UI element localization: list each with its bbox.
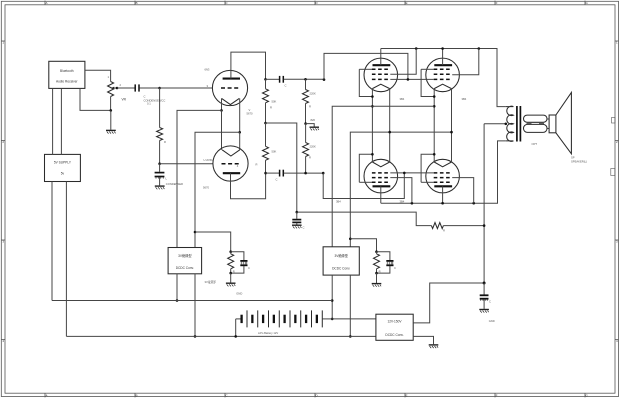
T4 g3 stub	[421, 181, 434, 183]
bluetooth receiver U-BT	[49, 61, 85, 88]
wire left filter jog	[195, 232, 231, 252]
T1 g3 stub	[359, 68, 372, 70]
svg-text:A: A	[45, 394, 47, 398]
svg-text:R: R	[309, 105, 311, 109]
wire left box pin2 to rail2	[194, 274, 196, 337]
node right filter tap	[349, 238, 352, 241]
svg-text:220K: 220K	[310, 92, 316, 96]
ground HV	[429, 345, 439, 348]
wire pot bottom down to ground	[110, 110, 112, 129]
svg-text:SPEAKER(L): SPEAKER(L)	[571, 160, 587, 164]
resistor R left bleeder	[228, 254, 234, 269]
svg-text:C: C	[489, 300, 491, 304]
wire B+ vertical	[483, 124, 485, 283]
svg-text:12V-150V: 12V-150V	[387, 320, 402, 324]
POWER BOTTOM	[52, 231, 495, 348]
node B+ decouple	[296, 211, 299, 214]
rail1 +12V	[52, 300, 332, 302]
ground 820	[310, 127, 320, 130]
wire grid node to tube grid	[160, 87, 213, 89]
node grid-leak upper	[304, 78, 307, 81]
svg-text:3V電源部: 3V電源部	[205, 280, 217, 284]
T2 plate	[434, 64, 452, 66]
T2 filament bracket	[421, 69, 434, 96]
TRANSFORMER SPEAKER	[483, 92, 587, 283]
battery BT1 LiPo	[236, 310, 333, 335]
wire to B+ col	[266, 123, 297, 212]
wire T2 g2 tie	[452, 49, 479, 75]
T1 filament right pin to bus B	[389, 89, 391, 133]
wire right box pin1 to rail1/battery	[331, 275, 333, 319]
capacitor C B+ bypass	[296, 212, 298, 219]
svg-text:R: R	[443, 229, 445, 233]
svg-text:R: R	[270, 106, 272, 110]
svg-text:C: C	[303, 226, 305, 230]
node wiper junction	[116, 87, 119, 90]
potentiometer VR	[108, 82, 114, 97]
T3 grids	[372, 173, 390, 182]
ground right bleeder	[372, 284, 382, 287]
DCDC converter left box	[168, 248, 202, 274]
T3 g3 stub	[359, 181, 372, 183]
resistor R right bleeder	[374, 254, 380, 269]
svg-text:5V SUPPLY: 5V SUPPLY	[54, 161, 72, 165]
T3 filament left pin	[371, 154, 373, 162]
T2 grids	[434, 69, 452, 79]
triode V2 lower 5670 envelope	[213, 146, 248, 181]
wire T1 g2 tie	[390, 49, 416, 75]
V1 grid dashes	[221, 87, 240, 89]
wire heater to DCDC col	[195, 132, 240, 247]
wire g1 bus top	[390, 78, 433, 80]
capacitor C left bleeder	[231, 252, 244, 261]
T1 plate	[373, 64, 391, 66]
OPT secondary winding 1	[524, 115, 548, 122]
node signal bottom	[322, 172, 325, 175]
node right RC top	[375, 250, 378, 253]
OPT core	[516, 106, 518, 142]
wire right box pin2 to rail2	[349, 275, 351, 336]
svg-text:C: C	[276, 177, 278, 181]
T3 filament	[372, 162, 389, 167]
svg-text:R: R	[256, 163, 258, 167]
svg-text:SP: SP	[571, 156, 575, 160]
V2 plate lead down-right-up	[231, 173, 266, 199]
svg-text:5670: 5670	[247, 112, 253, 116]
wire g1 bus bottom	[390, 172, 433, 174]
svg-text:CONDENSER: CONDENSER	[166, 182, 183, 186]
wire filament bus A	[332, 106, 434, 247]
wire secondary to speaker	[547, 118, 549, 120]
T4 filament	[434, 162, 451, 167]
T2 filament left pin	[433, 89, 435, 155]
ground grid bypass	[155, 186, 165, 189]
ground input	[106, 130, 116, 133]
wire cathode down to V2	[221, 110, 223, 149]
svg-text:B: B	[135, 394, 137, 398]
svg-text:220K: 220K	[310, 145, 316, 149]
wire filament bus B	[350, 132, 451, 247]
wire signal top jog over tubes	[324, 53, 408, 79]
T2 plate lead	[442, 49, 444, 66]
wire BT pin2 to 5V box	[60, 88, 62, 154]
wire to lower tube grid	[160, 163, 213, 165]
node bias 820	[304, 122, 307, 125]
T3 filament right pin	[389, 132, 391, 162]
svg-text:50K: 50K	[272, 100, 277, 104]
svg-text:U 2C51: U 2C51	[204, 158, 214, 162]
DCDC converter right box	[323, 247, 359, 275]
speaker SP driver box	[549, 115, 556, 133]
V2 cathode curve	[222, 150, 240, 156]
node B+ driver mid	[264, 122, 267, 125]
svg-text:DCDC Conv.: DCDC Conv.	[332, 267, 350, 271]
node grid upper	[158, 87, 161, 90]
resistor R dropper	[431, 223, 443, 229]
wire left box pin1 to rail1	[176, 274, 178, 301]
svg-text:820: 820	[311, 118, 316, 122]
svg-text:DCDC Conv.: DCDC Conv.	[385, 333, 403, 337]
speaker SP horn	[556, 92, 572, 153]
wire HV out	[413, 283, 484, 323]
svg-text:F: F	[496, 394, 498, 398]
T2 filament right pin	[451, 89, 453, 133]
wire 5V box pin2 down to rail2	[65, 182, 67, 337]
wire signal bottom jog under tubes	[323, 173, 404, 199]
T3 plate	[373, 185, 391, 187]
T1 grids	[372, 69, 390, 79]
V1 plate lead up	[231, 52, 266, 79]
ground B+ filter	[479, 310, 489, 313]
T4 filament bracket	[421, 154, 434, 182]
resistor 220K upper	[305, 79, 307, 89]
OPT secondary winding 2	[524, 124, 548, 132]
T3 plate lead	[380, 186, 382, 203]
OPT center tap	[484, 123, 507, 125]
pentode T2 3B4 envelope	[426, 58, 460, 92]
capacitor C grid bypass	[159, 164, 161, 172]
resistor 50K upper	[265, 79, 267, 89]
OPT primary winding	[506, 106, 514, 141]
T4 plate lead	[442, 186, 444, 203]
capacitor C coupling lower	[266, 172, 280, 174]
capacitor C coupling upper	[266, 78, 280, 80]
T1 plate lead	[380, 49, 382, 66]
DCDC HV box 12V-150V	[376, 314, 413, 340]
svg-text:V: V	[249, 108, 251, 112]
svg-text:3B4: 3B4	[336, 199, 341, 203]
secondary marks	[527, 123, 532, 125]
capacitor C1 input coupling	[117, 87, 135, 89]
wire B+ feed right	[297, 212, 432, 226]
node left RC top	[229, 250, 232, 253]
V1 cathode curve	[222, 98, 240, 104]
pentode T3 3B4 envelope	[364, 159, 398, 193]
V1 plate	[223, 78, 240, 80]
V1 heater lead	[239, 98, 241, 132]
wire battery minus to rail2	[235, 319, 237, 337]
svg-text:3V絶縁型: 3V絶縁型	[178, 253, 192, 258]
T4 filament right pin	[451, 132, 453, 162]
svg-text:F: F	[496, 1, 498, 5]
wire battery plus to HV box	[332, 318, 376, 320]
svg-text:C: C	[144, 94, 146, 98]
svg-text:C: C	[394, 266, 396, 270]
ground B+ bypass	[292, 225, 302, 228]
svg-text:OPT: OPT	[532, 142, 538, 146]
pentode T4 3B4 envelope	[426, 159, 460, 193]
wire to 820 ground	[306, 124, 315, 127]
T4 plate	[434, 185, 452, 187]
wire T4 g2 tie	[452, 178, 474, 204]
resistor R grid	[157, 128, 163, 141]
wire right filter jog	[350, 239, 376, 252]
pentode T1 3B4 envelope	[364, 58, 398, 92]
resistor 50K lower	[265, 123, 267, 146]
capacitor C right bleeder	[377, 252, 390, 261]
svg-text:VR: VR	[122, 98, 127, 102]
INPUT SECTION	[45, 61, 214, 336]
node pot bottom	[110, 109, 113, 112]
DRIVER TUBES	[177, 52, 266, 247]
T4 filament left pin	[433, 154, 435, 162]
5V supply box	[45, 154, 81, 181]
node left filter tap	[194, 231, 197, 234]
wire heater down to V2	[239, 132, 241, 150]
node signal top	[323, 78, 326, 81]
V2 plate	[223, 172, 240, 174]
svg-text:R: R	[164, 140, 166, 144]
svg-text:Audio Receiver: Audio Receiver	[56, 80, 79, 84]
OUTPUT TUBES	[332, 47, 506, 247]
node grid lower	[158, 162, 161, 165]
svg-text:6N3: 6N3	[205, 68, 210, 72]
node B+ filter	[483, 282, 486, 285]
svg-text:E: E	[405, 1, 407, 5]
svg-text:0.1: 0.1	[147, 102, 151, 106]
resistor 220K lower	[305, 124, 307, 143]
wire BT out to pot top	[85, 70, 111, 81]
svg-text:Bluetooth: Bluetooth	[60, 69, 74, 73]
svg-text:3B4: 3B4	[462, 97, 467, 101]
svg-text:DCDC Conv.: DCDC Conv.	[176, 266, 194, 270]
node V2 plate junction	[264, 172, 267, 175]
node left RC bottom	[229, 272, 232, 275]
svg-text:A: A	[45, 1, 47, 5]
T4 grids	[434, 173, 452, 182]
svg-text:3B4: 3B4	[400, 97, 405, 101]
T2 g3 stub	[421, 68, 434, 70]
INTERSTAGE	[263, 53, 485, 232]
node cathode junction	[220, 109, 223, 112]
node right RC bottom	[375, 272, 378, 275]
ground left bleeder	[226, 283, 236, 286]
svg-text:E: E	[405, 394, 407, 398]
svg-text:3V絶縁型: 3V絶縁型	[334, 253, 348, 258]
wire cathodes to heater col	[177, 110, 222, 247]
svg-text:5670: 5670	[203, 186, 209, 190]
node grid-leak lower	[304, 172, 307, 175]
node heater junction	[238, 131, 241, 134]
capacitor C B+ filter	[483, 283, 485, 295]
V1 cathode lead	[221, 98, 223, 110]
wire T3 g2 tie	[390, 178, 412, 204]
wire 5V box pin1 down to rail1	[51, 182, 53, 301]
svg-text:LiPo Battery 12V: LiPo Battery 12V	[258, 331, 278, 335]
svg-text:5v: 5v	[61, 172, 65, 176]
svg-text:50K: 50K	[272, 150, 277, 154]
svg-text:C: C	[285, 84, 287, 88]
pot wiper arrow	[111, 87, 114, 89]
wire pot bottom to BT gnd pin	[80, 88, 111, 110]
wire plate rail top	[381, 49, 506, 107]
T2 filament	[434, 84, 451, 88]
node V1 plate/50K	[264, 78, 267, 81]
T1 filament left pin	[371, 89, 373, 155]
T1 filament	[372, 84, 389, 88]
wire HV gnd out	[413, 336, 433, 344]
rail2 0V	[66, 335, 376, 337]
wire plate rail bottom	[381, 141, 506, 203]
svg-text:B: B	[135, 1, 137, 5]
V2 grid dashes	[222, 163, 241, 165]
T1 filament bracket	[359, 69, 372, 96]
svg-text:R: R	[309, 156, 311, 160]
svg-text:C: C	[248, 266, 250, 270]
svg-text:GND: GND	[236, 291, 242, 295]
wire BT pin1 to 5V box	[52, 88, 54, 154]
T3 filament bracket	[359, 154, 372, 182]
triode V1 upper 5670 envelope	[212, 70, 247, 105]
wire grid node down	[159, 88, 161, 128]
svg-text:GND: GND	[489, 319, 495, 323]
